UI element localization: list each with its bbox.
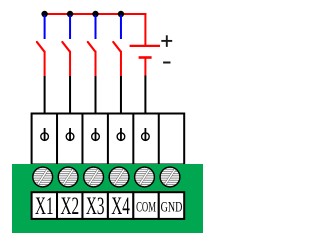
connector J1 cell divider 1 bbox=[56, 114, 58, 165]
node B (junction dot over switch S2) bbox=[67, 11, 73, 17]
svg-text:X4: X4 bbox=[111, 193, 130, 220]
wire: black lead from S1 to connector pin 1 bbox=[44, 76, 46, 137]
screw terminal X4 bbox=[109, 167, 129, 187]
wire: blue top contact of switch S3 bbox=[95, 15, 97, 39]
svg-text:X1: X1 bbox=[35, 193, 54, 220]
wire: red segment below switch S4 bbox=[120, 51, 122, 76]
wire: red drop from bus corner to battery + plate bbox=[144, 13, 146, 46]
connector J1 body bbox=[32, 114, 185, 165]
node A (junction dot over switch S1) bbox=[41, 11, 47, 17]
svg-text:GND: GND bbox=[161, 199, 183, 215]
label cell X4 bbox=[108, 192, 133, 220]
wire: red segment below battery to COM lead bbox=[144, 58, 146, 76]
wire: blue top contact of switch S4 bbox=[120, 15, 122, 39]
connector J1 pin 2 bbox=[66, 128, 74, 141]
svg-text:COM: COM bbox=[136, 198, 156, 215]
label cell X1 bbox=[32, 192, 57, 220]
connector J1 cell divider 5 bbox=[158, 114, 160, 165]
battery B1 negative plate bbox=[139, 56, 152, 59]
label: battery + sign bbox=[161, 35, 172, 47]
wire: black lead from S2 to connector pin 2 bbox=[69, 76, 71, 137]
connector J1 pin 4 bbox=[117, 128, 125, 141]
screw terminal X2 bbox=[58, 167, 78, 187]
wire: blue top contact of switch S2 bbox=[69, 15, 71, 39]
screw terminal GND bbox=[160, 167, 180, 187]
wire: blue top contact of switch S1 bbox=[44, 15, 46, 39]
node D (junction dot over switch S4) bbox=[118, 11, 124, 17]
wire: black lead from battery to connector COM pin bbox=[144, 76, 146, 138]
label cell X3 bbox=[82, 192, 107, 220]
battery B1 positive plate bbox=[130, 45, 160, 47]
connector J1 pin COM bbox=[142, 128, 150, 141]
label: battery - sign bbox=[163, 62, 170, 64]
switch S3 blade bbox=[88, 42, 95, 52]
svg-text:X2: X2 bbox=[60, 193, 79, 220]
wire: red segment below switch S3 bbox=[95, 51, 97, 76]
connector J1 pin 1 bbox=[41, 128, 49, 141]
connector J1 pin 3 bbox=[92, 128, 100, 141]
connector J1 cell divider 4 bbox=[132, 114, 134, 165]
terminal block TB1 body bbox=[12, 164, 203, 233]
screw terminal X3 bbox=[84, 167, 104, 187]
wire: black lead from S4 to connector pin 4 bbox=[120, 76, 122, 137]
label cell GND bbox=[159, 192, 184, 219]
wire: red segment below switch S2 bbox=[69, 51, 71, 76]
switch S4 blade bbox=[113, 42, 120, 52]
connector J1 cell divider 3 bbox=[107, 114, 109, 165]
label cell X2 bbox=[57, 192, 82, 220]
wire: black lead from S3 to connector pin 3 bbox=[95, 76, 97, 137]
switch S1 blade bbox=[37, 42, 44, 52]
screw terminal X1 bbox=[33, 167, 53, 187]
screw terminal COM bbox=[135, 167, 155, 187]
svg-text:X3: X3 bbox=[86, 193, 105, 220]
label cell COM bbox=[133, 192, 158, 219]
wire: red supply bus from node A to battery branch bbox=[45, 13, 147, 15]
node C (junction dot over switch S3) bbox=[92, 11, 98, 17]
wire: red segment below switch S1 bbox=[44, 51, 46, 76]
connector J1 cell divider 2 bbox=[81, 114, 83, 165]
switch S2 blade bbox=[62, 42, 69, 52]
